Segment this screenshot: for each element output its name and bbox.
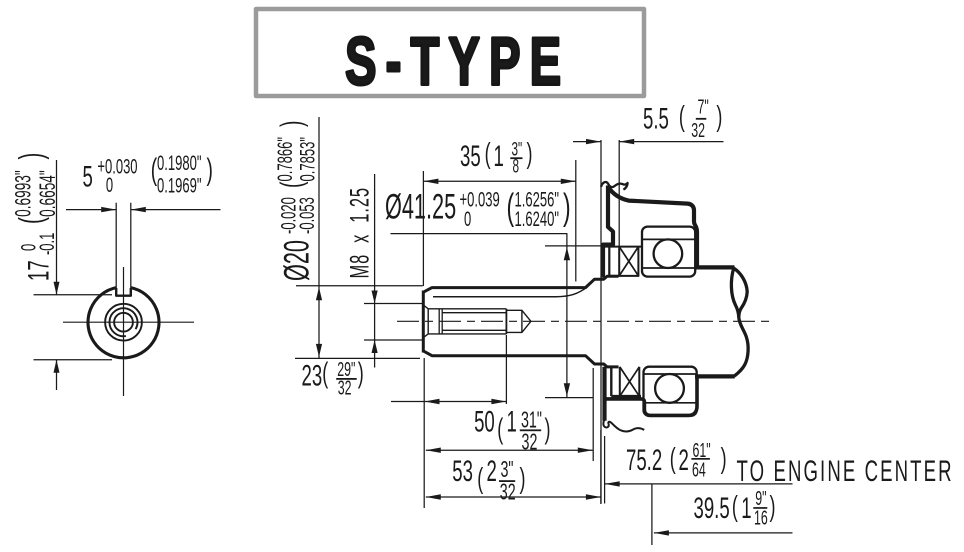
end view: thread minor circle xyxy=(114,313,133,332)
end view: thread major arc (3/4) xyxy=(109,308,137,336)
dimension M8: extension lines xyxy=(364,304,423,341)
dimension 75.2: dimension line xyxy=(605,483,793,485)
dimension 17: dimension line xyxy=(56,160,58,390)
bearing top: ball xyxy=(654,239,683,268)
label 53: fraction bar xyxy=(499,480,515,482)
svg-text:5: 5 xyxy=(83,160,93,194)
title text S-TYPE xyxy=(345,24,570,99)
svg-text:0: 0 xyxy=(106,173,113,197)
svg-text:(: ( xyxy=(151,153,158,187)
svg-text:1: 1 xyxy=(507,405,517,439)
seal X-box top: diagonals xyxy=(619,247,638,276)
dimension 53: dimension line xyxy=(426,496,601,498)
M8 tapped hole: countersink vertical xyxy=(427,309,429,334)
seal X-box bottom: bottom edge xyxy=(611,395,641,398)
svg-text:-0.053: -0.053 xyxy=(295,197,319,234)
svg-text:64: 64 xyxy=(692,458,706,481)
end view: chamfer circle xyxy=(105,304,142,341)
svg-text:): ) xyxy=(275,121,309,127)
housing: lower flange face xyxy=(602,367,606,421)
dimension 39.5: arrowhead xyxy=(654,530,669,535)
dimension Ø20: arrowheads xyxy=(316,287,322,357)
dimension 75.2: face extension line xyxy=(604,436,606,504)
svg-text:-0.1: -0.1 xyxy=(35,233,59,255)
label 75.2: fraction bar xyxy=(691,458,710,460)
end view: shaft outer circle with keyway gap xyxy=(88,288,159,358)
dimension 50: dimension line xyxy=(426,449,593,451)
seal X-box top: left lip xyxy=(608,247,610,276)
bearing bottom: ball xyxy=(655,374,684,403)
svg-text:0.6654": 0.6654" xyxy=(34,170,59,217)
dimension 5.5: extension lines xyxy=(601,140,619,504)
dimension 50: extension line right xyxy=(592,368,594,461)
svg-text:5.5: 5.5 xyxy=(643,102,669,136)
label: 39.5 (1 9/16") xyxy=(694,487,776,529)
bearing block top xyxy=(642,227,695,277)
shaft side view: top outline xyxy=(423,276,618,292)
svg-text:(: ( xyxy=(12,217,49,224)
label 50: fraction bar xyxy=(520,429,541,431)
svg-text:39.5: 39.5 xyxy=(694,491,730,525)
shaft side view: keyway floor line with ramp xyxy=(433,287,587,296)
shaft side view: bottom outline xyxy=(423,351,618,367)
label: 23 (29/32") xyxy=(302,357,364,399)
dimension Ø20: dimension line xyxy=(318,117,320,358)
svg-text:Ø41.25: Ø41.25 xyxy=(385,188,456,226)
svg-text:(: ( xyxy=(670,443,676,475)
dimension 39.5: tick extension line xyxy=(651,484,653,545)
dimension 17: bottom extension line xyxy=(34,359,113,361)
svg-text:): ) xyxy=(527,138,533,170)
svg-text:): ) xyxy=(563,186,571,228)
svg-text:53: 53 xyxy=(452,455,473,489)
end view: vertical centerline xyxy=(123,267,125,396)
svg-text:(: ( xyxy=(507,186,515,228)
svg-text:16: 16 xyxy=(754,506,768,529)
dimension 75.2: arrowhead xyxy=(605,481,620,486)
bearing bottom: race lines xyxy=(644,374,697,403)
svg-text:(: ( xyxy=(322,357,328,389)
label: 5.5 (7/32") xyxy=(643,96,722,142)
cylinder top edge xyxy=(695,265,735,269)
dimension 53: extension line right xyxy=(600,430,602,504)
dimension 35: extension lines xyxy=(423,160,575,286)
cylinder S-break xyxy=(731,268,748,376)
label: M8 x 1.25 rotated xyxy=(344,187,374,278)
dimension 39.5: dimension line xyxy=(654,532,793,534)
svg-text:(: ( xyxy=(477,463,483,495)
dimension 50: arrowheads xyxy=(426,448,593,453)
M8 tapped hole: thread start verticals xyxy=(439,309,442,334)
title box S-TYPE xyxy=(256,9,644,96)
label: 35 (1 3/8") xyxy=(460,138,533,177)
label: Ø41.25 +0.039/0 (1.6256"/1.6240") xyxy=(385,186,571,231)
shaft side view: end face xyxy=(422,291,425,353)
svg-text:(: ( xyxy=(275,181,309,188)
svg-text:): ) xyxy=(207,153,213,187)
dimension 5: arrowheads xyxy=(101,207,146,212)
bearing block bottom xyxy=(644,367,697,416)
svg-text:0.7866": 0.7866" xyxy=(273,137,297,181)
dimension 5: dimension line xyxy=(66,209,221,211)
label 39.5: fraction bar xyxy=(753,507,767,509)
label 5.5: fraction bar xyxy=(696,118,707,120)
housing: upper break squiggle xyxy=(601,182,628,190)
label: 53 (2 3/32") xyxy=(452,455,525,506)
end view: horizontal centerline xyxy=(63,321,194,323)
svg-text:32: 32 xyxy=(500,480,516,505)
housing: upper outer wall xyxy=(608,187,697,266)
dimension 53: arrowheads xyxy=(426,494,601,499)
svg-text:1: 1 xyxy=(493,139,503,173)
dimension 23: dimension line xyxy=(391,401,506,403)
svg-text:): ) xyxy=(769,491,775,523)
dimension 23: left extension line xyxy=(423,358,425,508)
dimension 23: arrowheads xyxy=(425,399,507,404)
svg-text:0: 0 xyxy=(464,207,471,231)
main centerline xyxy=(397,320,774,322)
svg-text:32: 32 xyxy=(691,119,705,142)
svg-text:): ) xyxy=(544,413,550,445)
svg-text:(: ( xyxy=(679,101,685,133)
svg-text:(: ( xyxy=(485,138,491,170)
svg-text:1.6240": 1.6240" xyxy=(515,207,559,231)
svg-text:Ø20: Ø20 xyxy=(278,240,316,281)
M8 tapped hole: thread end vertical xyxy=(505,309,507,334)
svg-text:50: 50 xyxy=(474,405,495,439)
housing: lower break squiggle xyxy=(603,420,644,432)
label: 50 (1 31/32") xyxy=(474,405,550,456)
label: 17 0/-0.1 (0.6993"/0.6654") rotated xyxy=(10,153,60,281)
svg-text:75.2: 75.2 xyxy=(626,443,662,477)
label 35: fraction bar xyxy=(510,157,522,159)
seal X-box top: sides xyxy=(619,247,638,276)
svg-text:7": 7" xyxy=(697,96,708,119)
dimension M8: arrowheads xyxy=(372,291,378,354)
label: TO ENGINE CENTER xyxy=(737,455,954,489)
dimension 5.5: arrowheads xyxy=(586,139,634,144)
seal X-box bottom: left lip vertical xyxy=(610,367,612,396)
dimension 5.5: dimension line xyxy=(573,141,724,143)
label 23: fraction bar xyxy=(336,378,357,380)
cylinder bottom edge xyxy=(695,374,735,378)
label: 75.2 (2 61/64") xyxy=(626,439,727,481)
bearing top: race lines xyxy=(642,239,695,268)
svg-text:8: 8 xyxy=(513,157,520,177)
M8 tapped hole: entry chamfer xyxy=(424,306,428,338)
svg-text:+0.030: +0.030 xyxy=(97,154,137,178)
dimension 35: arrowheads xyxy=(423,179,575,184)
svg-text:): ) xyxy=(716,101,722,133)
svg-text:): ) xyxy=(721,443,727,475)
svg-text:(: ( xyxy=(497,413,503,445)
housing: bore top edge xyxy=(603,246,641,248)
seal X-box bottom: diagonals xyxy=(620,367,640,396)
seal X-box bottom: sides xyxy=(620,367,640,396)
M8 tapped hole: major diameter lines xyxy=(428,309,506,334)
dimension 5: keyway extension lines xyxy=(116,203,131,294)
svg-text:): ) xyxy=(12,153,49,160)
svg-text:): ) xyxy=(358,357,364,389)
seal X-box top: bottom edge xyxy=(609,275,639,277)
dimension M8: dimension line xyxy=(374,174,376,368)
dimension Ø20: extension lines xyxy=(295,286,423,359)
svg-text:35: 35 xyxy=(460,139,481,173)
svg-text:(: ( xyxy=(732,491,738,523)
svg-text:0.6993": 0.6993" xyxy=(10,170,35,217)
end view: keyway notch xyxy=(116,288,131,296)
svg-text:23: 23 xyxy=(302,359,323,393)
dimension 23: extension line (thread depth) xyxy=(505,335,507,404)
svg-text:0.1969": 0.1969" xyxy=(157,173,201,197)
svg-text:S-TYPE: S-TYPE xyxy=(345,24,570,99)
dimension Ø41.25: leader underline and dimension line xyxy=(391,234,567,398)
dimension 17: top extension line (keyway floor) xyxy=(34,294,113,296)
dimension 35: dimension line xyxy=(423,180,575,182)
svg-text:): ) xyxy=(520,463,526,495)
M8 tapped hole: pilot hole and drill point xyxy=(506,310,531,332)
svg-text:32: 32 xyxy=(522,430,538,455)
dimension 17: arrowheads xyxy=(54,282,60,373)
svg-text:0.1980": 0.1980" xyxy=(157,151,201,175)
svg-text:2: 2 xyxy=(487,455,497,489)
svg-text:0.7853": 0.7853" xyxy=(295,137,319,181)
svg-text:M8 x 1.25: M8 x 1.25 xyxy=(344,187,374,278)
dimension Ø41.25: arrowheads xyxy=(564,247,570,396)
svg-text:TO ENGINE CENTER: TO ENGINE CENTER xyxy=(737,455,954,489)
svg-text:1: 1 xyxy=(741,491,751,525)
label: 5 +0.030/0 (0.1980"/0.1969") keyway width xyxy=(83,151,213,197)
M8 tapped hole: minor diameter lines xyxy=(442,313,506,331)
housing: upper flange face xyxy=(603,186,613,278)
svg-text:2: 2 xyxy=(679,443,689,477)
dimension Ø41.25: extension lines xyxy=(545,246,603,398)
housing: lower outer wall, block bottom edge and bore return xyxy=(605,376,697,415)
label: Ø20 -0.020/-0.053 (0.7866"/0.7853") rotated xyxy=(273,121,319,281)
svg-text:17: 17 xyxy=(22,260,56,281)
